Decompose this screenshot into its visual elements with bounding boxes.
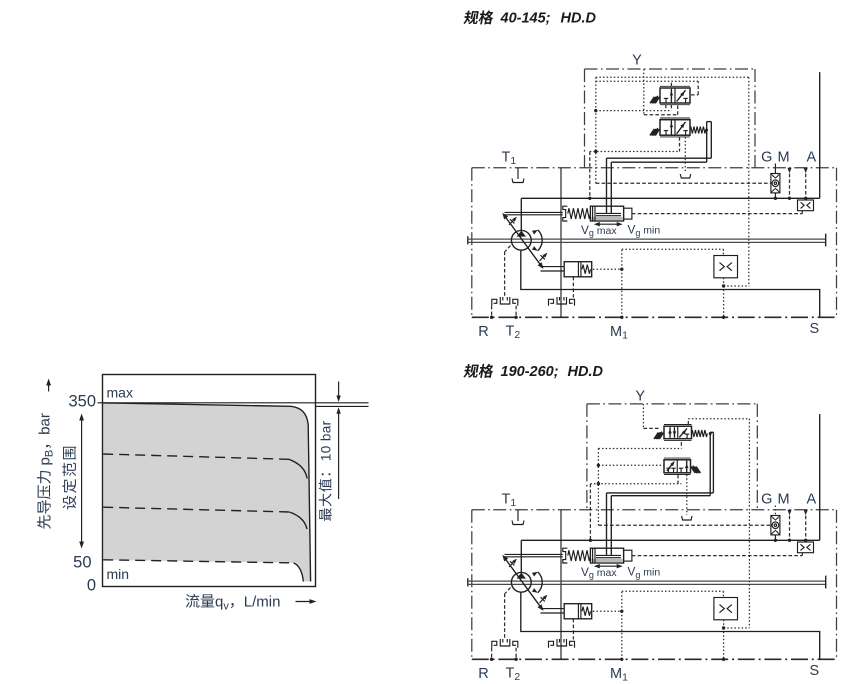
svg-text:M: M <box>777 149 789 165</box>
svg-text:G: G <box>761 491 772 507</box>
svg-text:HD.D: HD.D <box>568 364 604 380</box>
svg-text:T1: T1 <box>502 492 517 510</box>
svg-text:G: G <box>761 149 772 165</box>
svg-text:M: M <box>777 491 789 507</box>
svg-text:M1: M1 <box>610 666 628 684</box>
svg-text:R: R <box>478 324 488 340</box>
svg-text:A: A <box>806 149 816 165</box>
svg-text:190-260;: 190-260; <box>501 364 559 380</box>
svg-text:T2: T2 <box>506 324 521 342</box>
svg-text:10 bar: 10 bar <box>319 420 334 461</box>
svg-text:Y: Y <box>635 388 645 404</box>
svg-text:40-145;: 40-145; <box>500 11 551 27</box>
svg-text:pB: pB <box>37 450 56 466</box>
svg-text:S: S <box>809 663 819 679</box>
svg-text:Vg max: Vg max <box>581 565 617 580</box>
svg-text:Y: Y <box>632 53 642 69</box>
svg-text:HD.D: HD.D <box>561 11 597 27</box>
svg-text:350: 350 <box>68 393 96 411</box>
svg-text:M1: M1 <box>610 324 628 342</box>
svg-text:max: max <box>107 385 133 401</box>
svg-text:R: R <box>478 666 488 682</box>
svg-text:Vg min: Vg min <box>628 565 661 580</box>
svg-text:qv: qv <box>215 594 229 613</box>
svg-text:T1: T1 <box>502 150 517 168</box>
svg-text:A: A <box>806 491 816 507</box>
svg-text:T2: T2 <box>506 666 521 684</box>
svg-text:Vg min: Vg min <box>628 223 661 238</box>
svg-text:L/min: L/min <box>244 594 281 611</box>
svg-text:0: 0 <box>87 577 96 595</box>
svg-text:50: 50 <box>73 554 91 572</box>
svg-text:S: S <box>809 321 819 337</box>
svg-text:bar: bar <box>37 413 54 435</box>
svg-text:min: min <box>107 566 130 582</box>
svg-text:Vg max: Vg max <box>581 223 617 238</box>
